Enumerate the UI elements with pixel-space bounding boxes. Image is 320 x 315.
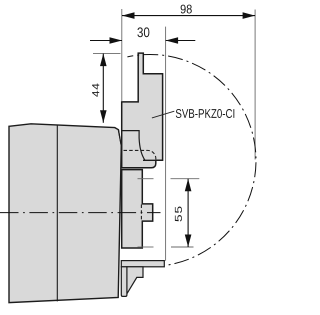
body front face edge [56,125,58,301]
V notch gap [119,131,121,146]
dimension 55 bottom arrow [185,235,192,248]
swing arc (dash-dot) [127,54,256,265]
leg [121,267,127,297]
dimension 55 line [187,179,189,247]
extension line y=178.7 (55 top) [138,178,154,180]
hidden edge through tab (dashed) [140,205,142,221]
extension line x=255.1 [254,10,256,160]
lower block [122,170,153,248]
extension line y=247 (55 bottom) [138,246,154,248]
center line [0,212,161,214]
mounting bar [121,261,164,267]
dimension 44 top arrow [100,54,107,67]
label leader [152,111,174,118]
dimension 55 text [175,207,182,222]
dimension 44 bottom arrow [100,110,107,123]
dimension 44 text [92,84,99,97]
dimension 98 right arrow [243,12,256,19]
inner step + collar curve [122,131,145,161]
dimension 98 left arrow [122,12,135,19]
label text [176,109,235,118]
hidden barrel (dashed) [124,150,156,159]
dimension 30 line right tail [166,40,196,42]
wide part bottom edge [143,159,163,161]
dimension 55 top arrow [185,179,192,192]
cover plate with handle tower (SVB-PKZ0-CI) [122,53,163,168]
extension line y=53.6 (44 top) [93,52,121,54]
extension line x=165.6 [165,27,167,261]
dimension 30 right arrow [166,37,179,44]
breaker body (side view) [9,124,121,303]
extension line x=121.8 [121,9,123,102]
dimension 30 left arrow [110,37,123,44]
dimension 98 text [181,5,192,14]
dimension 98 line [122,15,255,17]
dimension 30 line left tail [90,40,122,42]
dimension 44 line [102,54,104,123]
stair block [127,267,143,294]
dimension 30 text [137,27,149,37]
